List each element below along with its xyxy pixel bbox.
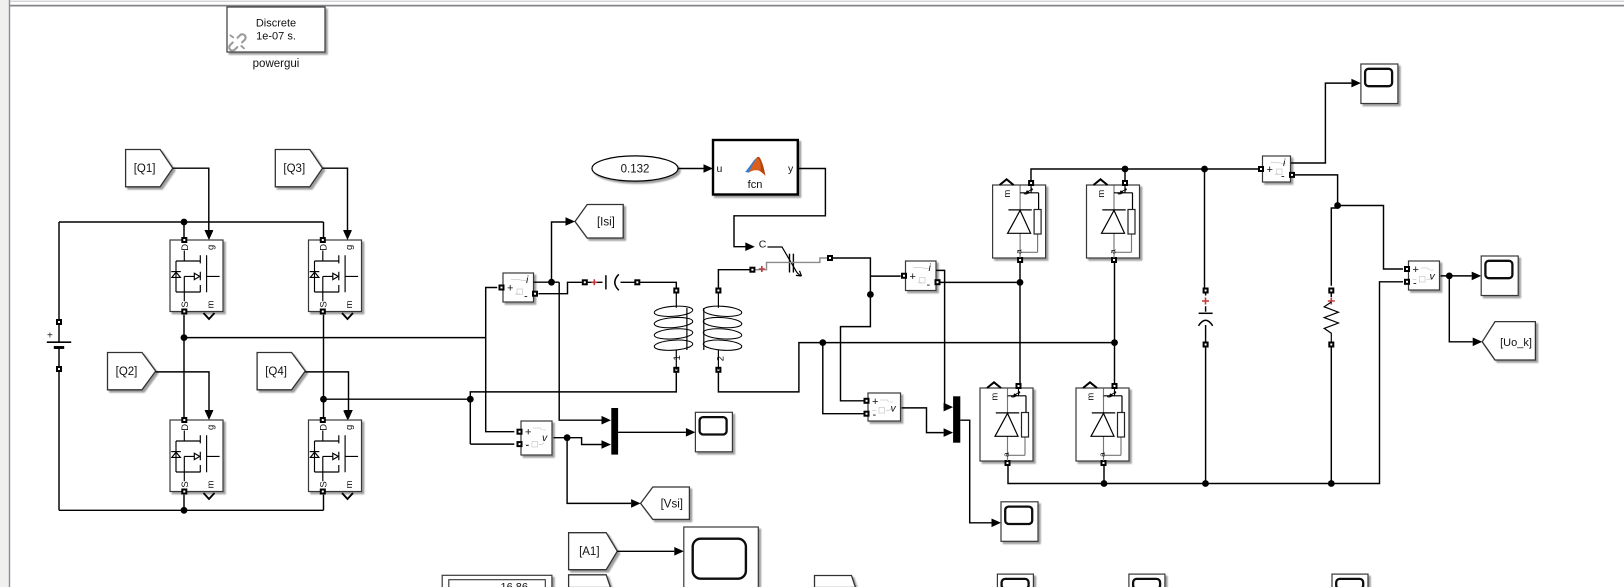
svg-text:+: + bbox=[507, 283, 513, 295]
wire: I3 - to resistor node and V3 + bbox=[1294, 175, 1403, 286]
From tag (partial, bottom edge) bbox=[569, 575, 611, 587]
svg-text:-: - bbox=[1413, 277, 1417, 289]
svg-text:0.132: 0.132 bbox=[621, 164, 650, 176]
wire: V2 output to mux2 input 2 bbox=[902, 408, 954, 437]
display block 16.86 bbox=[442, 575, 552, 587]
wire: Q2 gate bbox=[156, 372, 214, 420]
Goto tag [Isi] bbox=[575, 205, 623, 239]
wire: rectifier leg 2 (D2 a - D4 k) bbox=[1114, 263, 1116, 383]
svg-text:+: + bbox=[872, 396, 878, 408]
svg-text:+: + bbox=[47, 331, 53, 342]
wire: DC+ top rail bbox=[59, 219, 324, 226]
svg-text:-: - bbox=[524, 291, 528, 303]
svg-text:v: v bbox=[1430, 270, 1436, 282]
svg-text:-: - bbox=[873, 409, 877, 421]
svg-text:2: 2 bbox=[715, 356, 726, 361]
capacitor Co (output filter) bbox=[1199, 169, 1213, 484]
current measurement I2 (secondary) bbox=[901, 261, 941, 291]
wire: bridge leg B (Q3 S to Q4 D) bbox=[320, 315, 327, 417]
wire: A1 to big scope bbox=[617, 547, 684, 556]
wire: node A rail to current sensor bbox=[184, 337, 486, 339]
svg-text:+: + bbox=[910, 271, 916, 283]
Goto tag [Vsi] bbox=[641, 487, 690, 519]
svg-text:1: 1 bbox=[672, 355, 683, 360]
wire: DC- bottom rail bbox=[59, 495, 324, 514]
scope (partial bottom 2) bbox=[1129, 574, 1165, 587]
From tag [Q1] bbox=[126, 150, 173, 187]
wire: node A down to V1 + bbox=[486, 338, 515, 432]
svg-text:+: + bbox=[525, 427, 531, 439]
voltage measurement V3 (output) bbox=[1404, 261, 1440, 290]
diode D2 bbox=[1087, 179, 1140, 263]
diode D4 bbox=[1076, 382, 1129, 466]
wire: rectifier leg 1 (D1 a - D3 k) bbox=[1017, 263, 1024, 383]
wire: rectifier DC+ top rail bbox=[1031, 166, 1259, 182]
wire: winding2 to variable capacitor bbox=[718, 270, 749, 288]
mux M2 bbox=[953, 396, 960, 442]
powergui block bbox=[227, 7, 325, 52]
svg-text:[Q2]: [Q2] bbox=[116, 366, 138, 378]
svg-text:C: C bbox=[759, 239, 767, 251]
wire: rectifier DC- bottom rail bbox=[1008, 282, 1403, 487]
mux M1 bbox=[611, 408, 618, 455]
wire: constant to fcn bbox=[678, 164, 713, 173]
svg-text:u: u bbox=[717, 163, 723, 175]
svg-text:+: + bbox=[1267, 164, 1273, 176]
scope Scope5 (big, bottom) bbox=[684, 527, 759, 587]
transistor Q4 (MOSFET) bbox=[309, 411, 362, 500]
DC voltage source E1 bbox=[47, 222, 71, 510]
voltage measurement V2 (secondary) bbox=[864, 393, 901, 421]
transistor Q2 (MOSFET) bbox=[170, 411, 223, 500]
wire: secondary return rail to rectifier leg 2 bbox=[718, 339, 1118, 392]
svg-text:[Q3]: [Q3] bbox=[283, 163, 305, 175]
Goto tag [Uo_k] bbox=[1482, 322, 1535, 360]
From tag [Q2] bbox=[108, 353, 156, 390]
current measurement I3 (output) bbox=[1258, 156, 1295, 183]
wire: node A up to I1 + bbox=[486, 288, 498, 338]
wire: I2 i output to mux2 input 1 bbox=[936, 270, 953, 411]
wire: I1 signal down to mux1 input 1 bbox=[559, 282, 611, 424]
wire: winding1 return to node B bbox=[467, 373, 676, 445]
wire: Q1 drain stub bbox=[183, 222, 185, 237]
svg-text:[Q1]: [Q1] bbox=[134, 163, 156, 175]
svg-text:[Isi]: [Isi] bbox=[597, 217, 615, 229]
capacitor Cs (series resonant) bbox=[582, 274, 641, 290]
wire: fcn output to variable capacitor C input bbox=[734, 169, 825, 252]
transistor Q1 (MOSFET) bbox=[170, 231, 223, 320]
variable capacitor C (controlled) bbox=[749, 239, 833, 277]
transistor Q3 (MOSFET) bbox=[309, 231, 362, 320]
transformer T1 (linear) bbox=[654, 288, 742, 373]
wire: Q3 drain stub bbox=[323, 222, 325, 237]
svg-text:+: + bbox=[1413, 264, 1419, 276]
wire: node B rail bbox=[324, 398, 471, 400]
scope Scope4 (output voltage) bbox=[1481, 256, 1518, 296]
scope Scope2 (output current) bbox=[1361, 64, 1398, 104]
svg-text:-: - bbox=[1281, 171, 1285, 183]
wire: V1 output to mux1 and Vsi bbox=[554, 434, 641, 507]
svg-text:v: v bbox=[542, 432, 548, 444]
svg-text:[A1]: [A1] bbox=[579, 546, 599, 558]
wire: I2 - to rectifier leg 1 bbox=[939, 281, 1020, 283]
wire: Cs to transformer winding 1 bbox=[640, 282, 676, 287]
svg-text:[Q4]: [Q4] bbox=[265, 366, 287, 378]
svg-text:[Vsi]: [Vsi] bbox=[661, 498, 683, 510]
svg-text:v: v bbox=[891, 402, 897, 414]
scope Scope1 (primary V/I) bbox=[695, 412, 732, 452]
wire: Q3 gate bbox=[323, 168, 352, 239]
scope (partial bottom 3) bbox=[1332, 574, 1368, 587]
wire: variable capacitor to I2 + , V2 + bbox=[833, 258, 901, 401]
wire: return rail to V2 - bbox=[823, 343, 864, 414]
scope Scope3 (secondary V/I) bbox=[1001, 502, 1038, 542]
MATLAB Function block fcn bbox=[713, 140, 798, 195]
current measurement I1 (primary) bbox=[499, 273, 539, 303]
wire: bridge leg A (Q1 S to Q2 D) bbox=[181, 315, 188, 417]
From tag (partial 2, bottom edge) bbox=[815, 576, 856, 587]
svg-text:y: y bbox=[788, 163, 794, 175]
diode D3 bbox=[980, 382, 1033, 466]
svg-text:fcn: fcn bbox=[748, 179, 763, 191]
constant 0.132 bbox=[592, 156, 678, 181]
diode D1 bbox=[993, 179, 1046, 263]
wire: I1 i output to Isi goto and to mux bbox=[534, 217, 576, 285]
resistor RL (load) bbox=[1324, 288, 1338, 484]
wire: V3 output to scope and Uo_k goto bbox=[1441, 272, 1483, 347]
wire: Q1 gate bbox=[173, 168, 213, 239]
svg-text:powergui: powergui bbox=[253, 58, 300, 70]
From tag [A1] bbox=[569, 533, 618, 570]
wire: mux2 output to scope bbox=[960, 420, 1001, 527]
svg-text:16.86: 16.86 bbox=[500, 582, 528, 587]
svg-text:[Uo_k]: [Uo_k] bbox=[1500, 337, 1532, 349]
wire: mux1 output to scope bbox=[618, 428, 695, 437]
From tag [Q3] bbox=[275, 150, 322, 187]
From tag [Q4] bbox=[257, 353, 305, 390]
svg-text:1e-07 s.: 1e-07 s. bbox=[256, 31, 296, 43]
wire: I1 - to capacitor Cs bbox=[539, 282, 582, 293]
wire: I3 output to scope bbox=[1291, 79, 1361, 163]
wire: Q4 gate bbox=[305, 372, 353, 420]
voltage measurement V1 (primary) bbox=[517, 421, 553, 455]
svg-text:Discrete: Discrete bbox=[256, 18, 296, 30]
svg-text:-: - bbox=[526, 440, 530, 452]
svg-text:-: - bbox=[927, 279, 931, 291]
scope (partial bottom 1) bbox=[997, 574, 1033, 587]
